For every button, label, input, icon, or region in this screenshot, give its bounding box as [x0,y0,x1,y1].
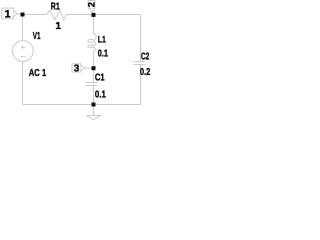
capacitor C1 plates [86,83,98,86]
node tag 3 box [72,64,85,72]
svg-text:0.2: 0.2 [140,67,151,78]
node tag 1 box [2,8,18,19]
V1 plus sign [21,45,25,49]
svg-text:C1: C1 [95,72,105,83]
ground [87,116,101,120]
source V1 circle [12,41,33,62]
wire L1 to node 3 [93,51,95,68]
svg-text:1: 1 [5,8,11,20]
node tag 2 lead [92,12,95,14]
wire right rail lower [140,65,142,105]
node tag 2 box [88,1,95,13]
wire node 3 to C1 [93,68,95,82]
svg-text:V1: V1 [33,31,41,42]
svg-text:0.1: 0.1 [95,89,106,100]
svg-text:C2: C2 [141,51,150,62]
junction dot ground node [92,103,96,107]
junction dot node 3 [92,66,96,70]
wire left rail upper [22,15,24,41]
capacitor C2 plates [134,62,146,65]
wire middle branch upper [93,15,95,34]
resistor R1 [46,10,66,19]
wire bottom rail [23,104,141,106]
junction dot node 2 [92,13,96,17]
svg-text:2: 2 [86,2,97,7]
svg-text:1: 1 [55,21,61,32]
node tag 1 lead [18,13,21,16]
svg-text:3: 3 [74,64,80,75]
svg-text:R1: R1 [51,2,60,13]
node tag 3 lead [85,67,92,69]
V1 minus sign [21,56,25,58]
wire top left: dot to resistor [23,14,47,16]
svg-text:AC 1: AC 1 [29,68,47,79]
wire to ground [93,105,95,116]
wire left rail lower [22,61,24,104]
wire C1 to bottom rail [93,86,95,105]
wire right rail upper [140,15,142,62]
svg-text:0.1: 0.1 [98,48,108,59]
svg-text:L1: L1 [98,35,106,46]
junction dot node 1 [21,13,25,17]
background [0,0,160,120]
inductor L1 coil [94,34,97,40]
wire top right: resistor to corner [66,14,140,16]
